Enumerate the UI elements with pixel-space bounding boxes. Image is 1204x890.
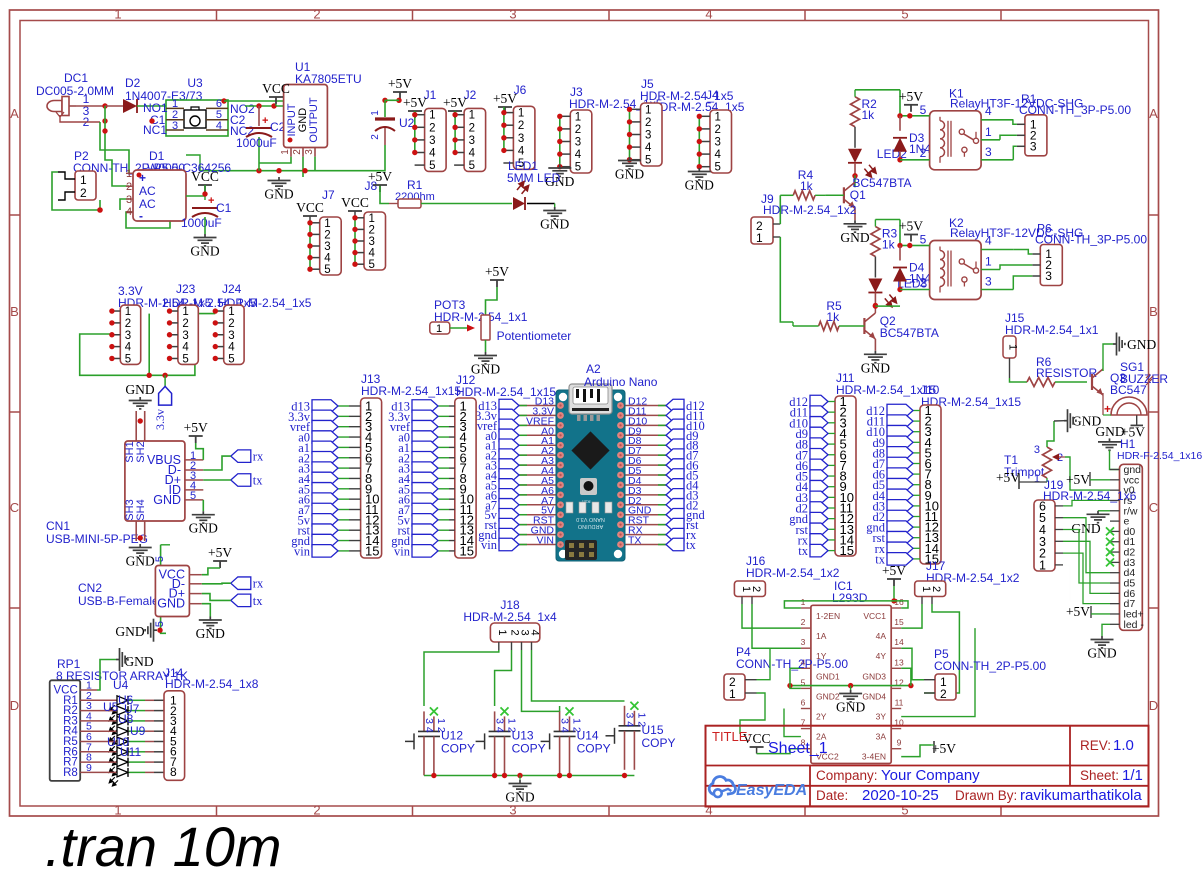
svg-text:13: 13 (894, 657, 904, 667)
svg-text:COPY: COPY (577, 741, 611, 755)
svg-text:+: + (262, 115, 268, 127)
svg-text:5: 5 (324, 264, 330, 276)
svg-text:A: A (10, 106, 19, 121)
svg-text:3 4: 3 4 (559, 718, 571, 733)
svg-text:VCC1: VCC1 (863, 611, 886, 621)
svg-text:NC1: NC1 (143, 123, 167, 137)
svg-text:2: 2 (920, 146, 927, 160)
svg-text:+5V: +5V (493, 91, 517, 106)
svg-text:3 4: 3 4 (494, 718, 506, 733)
svg-text:2: 2 (80, 186, 87, 200)
svg-text:5: 5 (920, 103, 927, 117)
svg-text:3: 3 (715, 137, 721, 149)
svg-text:+5V: +5V (184, 420, 208, 435)
svg-text:GND: GND (190, 244, 219, 259)
svg-text:4: 4 (369, 248, 376, 260)
svg-text:+5V: +5V (388, 76, 412, 91)
svg-text:U11: U11 (120, 745, 141, 759)
svg-text:2: 2 (370, 134, 381, 140)
svg-text:R1: R1 (407, 178, 423, 192)
svg-text:GND: GND (157, 597, 185, 611)
svg-text:1/1: 1/1 (1122, 767, 1143, 784)
svg-text:5: 5 (190, 490, 196, 502)
svg-text:+5V: +5V (996, 470, 1020, 485)
svg-text:GND: GND (125, 382, 154, 397)
svg-text:1.0: 1.0 (1113, 737, 1134, 754)
svg-text:J23: J23 (176, 282, 196, 296)
svg-text:+5V: +5V (403, 95, 427, 110)
svg-text:Potentiometer: Potentiometer (497, 329, 572, 343)
svg-text:3: 3 (324, 241, 330, 253)
svg-text:2: 2 (518, 120, 524, 132)
svg-text:3: 3 (518, 133, 524, 145)
svg-text:4: 4 (715, 149, 722, 161)
svg-text:6: 6 (801, 698, 806, 708)
svg-text:3Y: 3Y (876, 712, 887, 722)
svg-text:B: B (1149, 304, 1158, 319)
svg-text:2: 2 (750, 586, 762, 592)
svg-text:3: 3 (645, 130, 651, 142)
svg-text:1: 1 (729, 687, 736, 701)
svg-text:DC1: DC1 (64, 71, 88, 85)
svg-text:Date:: Date: (816, 788, 848, 803)
svg-text:GND: GND (615, 167, 644, 182)
svg-text:9: 9 (897, 738, 902, 748)
svg-text:+5V: +5V (1066, 472, 1090, 487)
svg-text:C: C (10, 500, 19, 515)
svg-text:tx: tx (253, 474, 263, 488)
svg-text:+5V: +5V (368, 169, 392, 184)
svg-text:3: 3 (429, 135, 435, 147)
svg-text:5: 5 (901, 7, 908, 22)
svg-text:CN1: CN1 (46, 519, 70, 533)
svg-text:2: 2 (469, 122, 475, 134)
svg-text:U13: U13 (512, 728, 534, 742)
svg-text:2: 2 (575, 124, 581, 136)
svg-text:1: 1 (518, 108, 524, 120)
svg-text:KA7805ETU: KA7805ETU (295, 72, 362, 86)
svg-text:GND: GND (124, 654, 153, 669)
svg-text:3: 3 (1034, 444, 1040, 456)
svg-text:3: 3 (125, 330, 131, 342)
svg-text:+5V: +5V (882, 563, 906, 578)
svg-text:1A: 1A (816, 631, 827, 641)
svg-text:1: 1 (324, 218, 330, 230)
svg-text:GND: GND (153, 493, 181, 507)
svg-text:Company:: Company: (816, 768, 878, 783)
svg-text:3 4: 3 4 (423, 718, 435, 733)
svg-text:14: 14 (894, 637, 904, 647)
svg-text:VCC: VCC (262, 81, 290, 96)
svg-text:11: 11 (895, 698, 904, 708)
svg-text:1: 1 (715, 111, 721, 123)
svg-text:GND: GND (840, 230, 869, 245)
svg-text:5MM LED: 5MM LED (507, 171, 561, 185)
svg-text:2: 2 (126, 181, 132, 193)
svg-text:1000uF: 1000uF (236, 136, 277, 150)
svg-text:U4: U4 (113, 678, 129, 692)
svg-text:2: 2 (292, 149, 303, 155)
svg-text:U12: U12 (441, 728, 463, 742)
svg-text:3: 3 (1030, 139, 1037, 153)
svg-text:EasyEDA: EasyEDA (736, 782, 807, 799)
svg-text:SH2: SH2 (135, 441, 147, 462)
svg-text:GND: GND (836, 700, 865, 715)
svg-text:R8: R8 (63, 767, 78, 779)
svg-text:U5: U5 (103, 700, 119, 714)
svg-text:5: 5 (154, 556, 166, 562)
svg-text:Your Company: Your Company (881, 767, 980, 784)
svg-text:ARDUINO: ARDUINO (577, 523, 603, 529)
svg-text:4: 4 (125, 342, 132, 354)
svg-text:1: 1 (985, 125, 992, 139)
svg-text:rx: rx (253, 577, 264, 591)
svg-text:GND: GND (189, 521, 218, 536)
svg-text:4: 4 (429, 148, 436, 160)
svg-text:1: 1 (182, 306, 188, 318)
svg-text:5: 5 (182, 353, 188, 365)
svg-text:+5V: +5V (443, 95, 467, 110)
svg-text:1: 1 (80, 173, 87, 187)
svg-text:COPY: COPY (642, 736, 676, 750)
svg-text:GND: GND (861, 360, 890, 375)
svg-text:H1: H1 (1120, 437, 1136, 451)
svg-text:5: 5 (715, 162, 721, 174)
svg-text:3 4: 3 4 (624, 712, 636, 727)
svg-text:1: 1 (429, 110, 435, 122)
svg-text:+5V: +5V (208, 545, 232, 560)
svg-text:5: 5 (125, 353, 131, 365)
svg-text:2: 2 (429, 122, 435, 134)
svg-text:tx: tx (798, 544, 808, 558)
svg-text:+5V: +5V (485, 264, 509, 279)
svg-text:HDR-M-2.54_1x8: HDR-M-2.54_1x8 (165, 677, 259, 691)
svg-text:1: 1 (436, 323, 442, 335)
svg-text:+5V: +5V (899, 219, 923, 234)
svg-text:D: D (10, 698, 19, 713)
svg-text:3: 3 (469, 135, 475, 147)
svg-text:HDR-M-2.54_1x15: HDR-M-2.54_1x15 (456, 385, 556, 399)
svg-text:3: 3 (509, 7, 516, 22)
svg-text:1: 1 (469, 110, 475, 122)
svg-text:NANO V3.0: NANO V3.0 (576, 516, 605, 522)
svg-text:USB-MINI-5P-PEG: USB-MINI-5P-PEG (46, 532, 148, 546)
svg-text:3: 3 (985, 275, 992, 289)
svg-text:1: 1 (125, 306, 131, 318)
svg-text:1: 1 (114, 7, 121, 22)
svg-text:1: 1 (645, 104, 651, 116)
svg-text:15: 15 (840, 543, 854, 558)
svg-text:.tran 10m: .tran 10m (45, 815, 282, 878)
svg-text:Drawn By:: Drawn By: (955, 788, 1017, 803)
svg-text:15: 15 (365, 543, 379, 558)
svg-text:U3: U3 (187, 76, 203, 90)
svg-text:GND: GND (1087, 646, 1116, 661)
svg-text:2: 2 (645, 117, 651, 129)
svg-text:OUTPUT: OUTPUT (308, 97, 320, 143)
svg-text:VCC: VCC (191, 169, 219, 184)
svg-text:A2: A2 (586, 362, 601, 376)
svg-text:+5V: +5V (932, 741, 956, 756)
svg-text:GND: GND (115, 624, 144, 639)
svg-text:4: 4 (216, 120, 222, 132)
svg-text:1: 1 (1034, 473, 1040, 485)
svg-text:4: 4 (518, 145, 525, 157)
svg-text:1: 1 (1039, 558, 1046, 572)
svg-text:4: 4 (182, 342, 189, 354)
svg-text:vin: vin (481, 538, 498, 552)
svg-text:1k: 1k (862, 108, 876, 122)
svg-text:1k: 1k (882, 238, 896, 252)
svg-text:15: 15 (460, 543, 474, 558)
svg-text:CONN-TH_2P-P5.00: CONN-TH_2P-P5.00 (736, 657, 848, 671)
svg-text:2: 2 (313, 803, 320, 818)
svg-text:15: 15 (894, 617, 904, 627)
svg-text:5: 5 (901, 803, 908, 818)
svg-text:L293D: L293D (832, 591, 868, 605)
svg-text:4: 4 (126, 206, 132, 218)
svg-text:2: 2 (715, 124, 721, 136)
svg-text:tx: tx (253, 594, 263, 608)
svg-text:GND3: GND3 (862, 671, 886, 681)
svg-text:+: + (1104, 402, 1111, 416)
svg-text:3A: 3A (876, 732, 887, 742)
svg-text:vin: vin (394, 544, 411, 558)
svg-text:HDR-M-2.54_1x1: HDR-M-2.54_1x1 (1005, 323, 1099, 337)
svg-text:GND1: GND1 (816, 671, 840, 681)
svg-text:+5V: +5V (899, 89, 923, 104)
svg-text:9: 9 (86, 762, 92, 774)
svg-text:+5V: +5V (1066, 604, 1090, 619)
svg-text:2020-10-25: 2020-10-25 (862, 787, 939, 804)
svg-text:4: 4 (705, 7, 712, 22)
svg-text:vin: vin (294, 544, 311, 558)
svg-text:+: + (208, 195, 214, 207)
svg-text:led -: led - (1124, 619, 1145, 631)
svg-text:GND: GND (196, 626, 225, 641)
svg-text:5: 5 (920, 233, 927, 247)
svg-text:3.3v: 3.3v (153, 409, 167, 430)
svg-text:J7: J7 (322, 188, 335, 202)
svg-text:D: D (1149, 698, 1158, 713)
svg-text:tx: tx (686, 538, 696, 552)
svg-text:BUZZER: BUZZER (1120, 372, 1168, 386)
svg-text:U14: U14 (577, 728, 599, 742)
svg-text:1: 1 (756, 231, 763, 245)
svg-text:8: 8 (170, 765, 177, 779)
svg-text:HDR-M-2.54_1x4: HDR-M-2.54_1x4 (463, 610, 557, 624)
svg-text:D2: D2 (125, 76, 141, 90)
svg-text:TX: TX (628, 535, 641, 547)
svg-text:TITLE:: TITLE: (712, 729, 751, 744)
svg-text:3: 3 (304, 149, 315, 155)
svg-text:1: 1 (496, 629, 508, 635)
svg-text:J24: J24 (222, 282, 242, 296)
svg-text:1: 1 (801, 597, 806, 607)
svg-text:1: 1 (985, 255, 992, 269)
svg-text:2: 2 (125, 318, 131, 330)
svg-text:3: 3 (228, 330, 234, 342)
svg-text:HDR-F-2.54_1x16: HDR-F-2.54_1x16 (1117, 450, 1202, 462)
svg-text:2: 2 (324, 229, 330, 241)
svg-text:1: 1 (280, 149, 291, 155)
svg-text:GND: GND (264, 187, 293, 202)
svg-text:A: A (1149, 106, 1158, 121)
svg-text:COPY: COPY (441, 741, 475, 755)
svg-text:5: 5 (429, 160, 435, 172)
svg-text:REV:: REV: (1080, 738, 1111, 753)
svg-text:3: 3 (182, 330, 188, 342)
svg-text:CN2: CN2 (78, 581, 102, 595)
svg-text:3: 3 (575, 137, 581, 149)
svg-text:2: 2 (930, 586, 942, 592)
svg-text:BC547BTA: BC547BTA (880, 326, 939, 340)
svg-text:B: B (10, 304, 19, 319)
svg-text:C: C (1149, 500, 1158, 515)
svg-text:4: 4 (575, 149, 582, 161)
svg-text:5: 5 (369, 259, 375, 271)
svg-text:2: 2 (369, 224, 375, 236)
svg-text:-: - (139, 209, 143, 223)
svg-text:2: 2 (920, 276, 927, 290)
svg-text:HDR-M-2.54_1x2: HDR-M-2.54_1x2 (763, 203, 857, 217)
svg-text:GND: GND (505, 790, 534, 805)
svg-text:5: 5 (645, 155, 651, 167)
svg-text:5: 5 (469, 160, 475, 172)
svg-text:3: 3 (126, 194, 132, 206)
svg-text:4: 4 (645, 142, 652, 154)
svg-text:AC: AC (139, 184, 156, 198)
svg-text:U9: U9 (130, 724, 146, 738)
svg-text:1: 1 (370, 110, 381, 116)
svg-text:1: 1 (126, 168, 132, 180)
svg-text:SH4: SH4 (135, 499, 147, 520)
svg-text:COPY: COPY (512, 741, 546, 755)
svg-text:2: 2 (313, 7, 320, 22)
svg-text:4Y: 4Y (876, 651, 887, 661)
svg-text:Q1: Q1 (850, 188, 866, 202)
svg-text:1: 1 (228, 306, 234, 318)
svg-text:GND: GND (1127, 337, 1156, 352)
svg-text:5: 5 (575, 162, 581, 174)
svg-text:GND: GND (540, 217, 569, 232)
svg-text:VCC: VCC (341, 195, 369, 210)
svg-text:3: 3 (172, 120, 178, 132)
svg-text:C1: C1 (216, 201, 232, 215)
svg-text:GND4: GND4 (862, 691, 886, 701)
svg-text:GND: GND (126, 554, 155, 569)
svg-text:RESISTOR: RESISTOR (1036, 366, 1097, 380)
svg-text:2Y: 2Y (816, 712, 827, 722)
svg-text:4: 4 (529, 629, 541, 635)
svg-text:1000uF: 1000uF (181, 216, 222, 230)
svg-text:3: 3 (369, 236, 375, 248)
svg-text:5: 5 (154, 621, 166, 627)
svg-text:4: 4 (324, 253, 331, 265)
svg-text:ravikumarthatikola: ravikumarthatikola (1020, 787, 1142, 804)
svg-text:Arduino Nano: Arduino Nano (584, 375, 658, 389)
svg-text:4A: 4A (876, 631, 887, 641)
svg-text:rx: rx (253, 450, 264, 464)
svg-text:3: 3 (1045, 269, 1052, 283)
svg-text:2: 2 (228, 318, 234, 330)
svg-text:VIN: VIN (536, 535, 554, 547)
svg-text:HDR-M-2.54_1x15: HDR-M-2.54_1x15 (361, 384, 461, 398)
svg-text:Sheet_1: Sheet_1 (768, 740, 828, 757)
svg-text:GND: GND (685, 178, 714, 193)
svg-text:4: 4 (469, 148, 476, 160)
svg-text:Sheet:: Sheet: (1080, 768, 1119, 783)
svg-text:2: 2 (182, 318, 188, 330)
svg-text:5: 5 (228, 353, 234, 365)
svg-text:1: 1 (369, 213, 375, 225)
svg-text:2: 2 (940, 687, 947, 701)
svg-text:3: 3 (801, 637, 806, 647)
svg-text:DC005-2.0MM: DC005-2.0MM (36, 84, 114, 98)
svg-text:CONN-TH_2P-P5.00: CONN-TH_2P-P5.00 (934, 659, 1046, 673)
svg-text:HDR-M-2.54_1x2: HDR-M-2.54_1x2 (746, 566, 840, 580)
svg-text:4: 4 (228, 342, 235, 354)
svg-text:2: 2 (801, 617, 806, 627)
svg-text:3-4EN: 3-4EN (862, 752, 886, 762)
svg-text:3: 3 (985, 145, 992, 159)
svg-text:1: 1 (1007, 344, 1019, 350)
svg-text:U15: U15 (642, 723, 664, 737)
svg-text:VCC: VCC (296, 200, 324, 215)
svg-text:1: 1 (575, 111, 581, 123)
svg-text:3: 3 (509, 803, 516, 818)
svg-text:1-2EN: 1-2EN (816, 611, 840, 621)
